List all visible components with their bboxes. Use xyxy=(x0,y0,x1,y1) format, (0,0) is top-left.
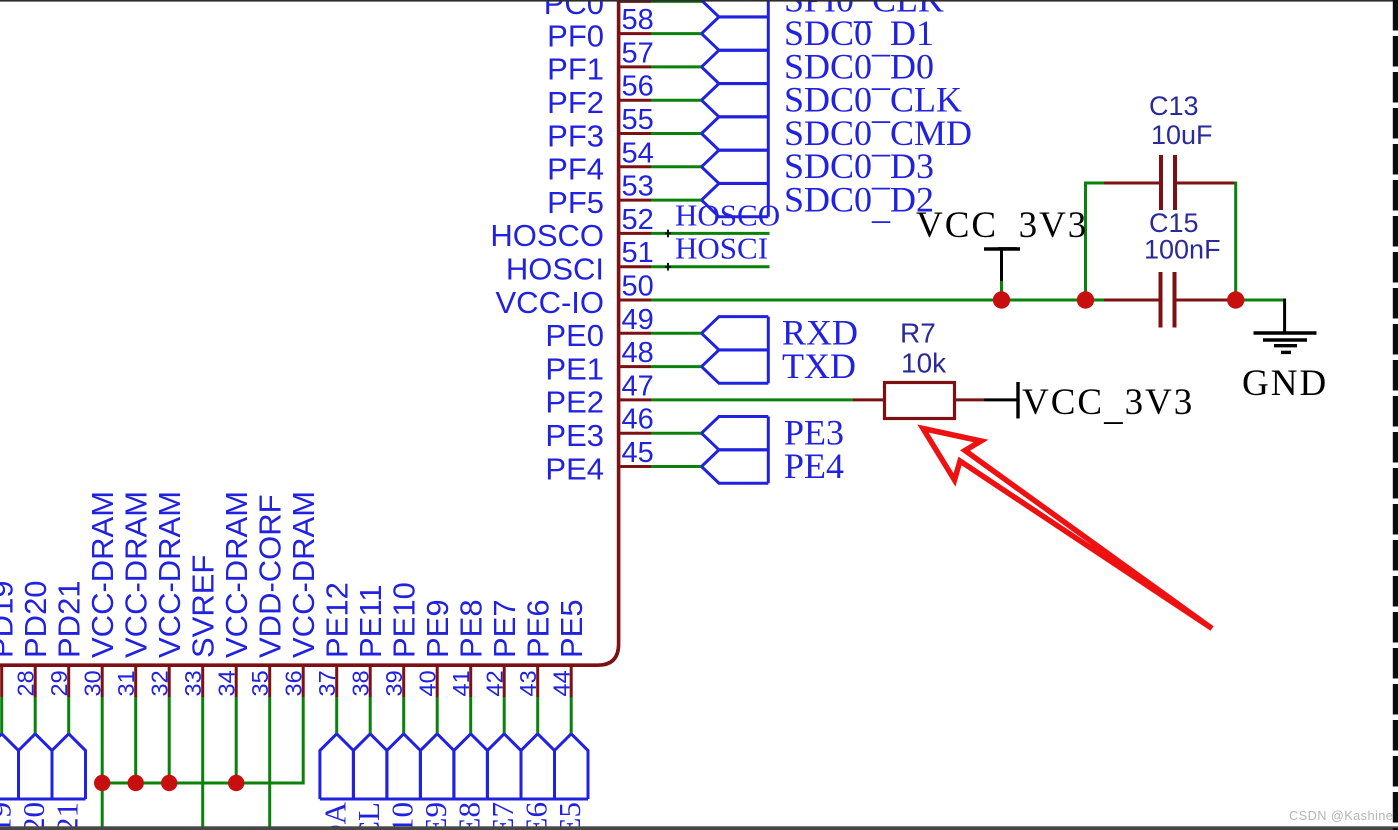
pin 41 (PE8) bottom stub, number and name xyxy=(448,599,489,697)
ground symbol GND stem xyxy=(1283,299,1286,333)
pin 54 (PF4) right-side stub, number and name xyxy=(547,137,654,186)
svg-text:PE10: PE10 xyxy=(385,802,420,830)
svg-text:56: 56 xyxy=(622,71,654,103)
svg-text:44: 44 xyxy=(549,670,575,696)
svg-text:48: 48 xyxy=(622,337,654,369)
svg-text:PE11: PE11 xyxy=(353,584,388,658)
pin 30 (VCC-DRAM) bottom stub, number and name xyxy=(80,491,121,697)
pin 29 (PD21) bottom stub, number and name xyxy=(46,580,87,697)
wire from pin PF1 xyxy=(651,65,703,68)
wire VCC-DRAM pin36 with corner xyxy=(102,697,303,783)
wire VCC-IO net (row 50) green main run xyxy=(651,299,1104,302)
svg-text:PF3: PF3 xyxy=(547,118,604,153)
wire PE pin41 xyxy=(469,697,472,734)
pin 47 (PE2) right-side stub, number and name xyxy=(545,370,653,419)
svg-text:HOSCO: HOSCO xyxy=(675,197,780,232)
wire PE pin44 xyxy=(570,697,573,734)
wire maroon lead to C15 left plate xyxy=(1104,299,1159,302)
svg-text:PE8: PE8 xyxy=(452,802,487,830)
wire PD20 xyxy=(34,697,37,734)
svg-text:PE9: PE9 xyxy=(418,802,453,830)
wire PE2 green to R7 xyxy=(651,398,853,401)
wire green stem to junction xyxy=(1000,281,1003,300)
wire PE pin39 xyxy=(402,697,405,734)
svg-text:PD19: PD19 xyxy=(0,802,18,830)
svg-text:SVREF: SVREF xyxy=(186,555,221,658)
wire VCC-DRAM pin30 down through junction to sheet edge xyxy=(101,697,104,830)
svg-text:29: 29 xyxy=(46,670,72,696)
harness chevron group PE3/PE4 (pins PE3,PE4) xyxy=(702,417,769,484)
pin 42 (PE7) bottom stub, number and name xyxy=(482,599,523,697)
svg-text:PE9: PE9 xyxy=(420,599,455,658)
power symbol VCC_3V3 (right of R7) lead and bar xyxy=(984,382,1018,419)
svg-text:34: 34 xyxy=(214,670,240,696)
wire from pin PF2 xyxy=(651,99,703,102)
svg-text:32: 32 xyxy=(147,670,173,696)
pin 45 (PE4) right-side stub, number and name xyxy=(545,437,653,486)
svg-text:VCC_3V3: VCC_3V3 xyxy=(1022,382,1194,428)
svg-text:58: 58 xyxy=(622,4,654,36)
pin 57 (PF1) right-side stub, number and name xyxy=(547,37,654,86)
pin 52 (HOSCO) right-side stub, number and name xyxy=(490,204,653,253)
svg-text:36: 36 xyxy=(281,670,307,696)
IC body outline U1 (right/bottom edges, rounded corner) xyxy=(0,0,619,665)
svg-text:VCC-DRAM: VCC-DRAM xyxy=(219,491,254,658)
svg-text:57: 57 xyxy=(622,37,654,69)
svg-text:40: 40 xyxy=(415,670,441,696)
svg-text:PE5: PE5 xyxy=(552,802,587,830)
pin PC0 (PC0) right-side stub, number and name xyxy=(544,0,651,21)
svg-text:GND: GND xyxy=(1242,363,1328,404)
svg-text:SCL: SCL xyxy=(351,802,386,830)
svg-text:50: 50 xyxy=(622,271,654,303)
wire maroon R7 left lead xyxy=(853,398,884,401)
wire PD19 xyxy=(0,697,3,734)
svg-text:HOSCI: HOSCI xyxy=(675,231,768,266)
bottom window border bar xyxy=(0,826,1398,830)
pin 51 (HOSCI) right-side stub, number and name xyxy=(506,237,654,286)
top window border line xyxy=(0,0,1398,2)
pin 39 (PE10) bottom stub, number and name xyxy=(381,582,422,697)
svg-text:PE12: PE12 xyxy=(320,582,355,658)
svg-text:PE5: PE5 xyxy=(554,599,589,658)
svg-text:55: 55 xyxy=(622,104,654,136)
ground symbol GND bars xyxy=(1254,333,1317,352)
wire maroon lead from C15 right plate xyxy=(1177,299,1232,302)
svg-text:52: 52 xyxy=(622,204,654,236)
svg-text:28: 28 xyxy=(13,670,39,696)
svg-text:TXD: TXD xyxy=(782,346,856,386)
wire PE pin37 xyxy=(335,697,338,734)
pin 31 (VCC-DRAM) bottom stub, number and name xyxy=(113,491,154,697)
svg-text:43: 43 xyxy=(515,670,541,696)
svg-text:HOSCO: HOSCO xyxy=(490,218,604,253)
svg-text:C13: C13 xyxy=(1149,91,1199,121)
pin 35 (VDD-CORF) bottom stub, number and name xyxy=(247,494,288,697)
wire green right riser of C13 loop xyxy=(1234,182,1237,301)
svg-text:PE10: PE10 xyxy=(387,582,422,658)
wire top branch to C13 (green then maroon) xyxy=(1084,182,1159,185)
junction dot VCC-DRAM bus at pin 30 xyxy=(94,775,110,791)
svg-text:100nF: 100nF xyxy=(1144,235,1221,265)
pin 37 (PE12) bottom stub, number and name xyxy=(314,582,355,697)
junction dot VCC-DRAM bus at pin 34 xyxy=(228,775,244,791)
svg-text:49: 49 xyxy=(622,304,654,336)
pin 49 (PE0) right-side stub, number and name xyxy=(545,304,653,353)
pin 55 (PF3) right-side stub, number and name xyxy=(547,104,654,153)
svg-text:PD21: PD21 xyxy=(52,580,87,658)
svg-text:C15: C15 xyxy=(1149,208,1199,238)
pin 43 (PE6) bottom stub, number and name xyxy=(515,599,556,697)
wire from pin PE0 xyxy=(651,332,703,335)
svg-text:47: 47 xyxy=(622,370,654,402)
wire from pin PE1 xyxy=(651,365,703,368)
svg-text:PE2: PE2 xyxy=(545,385,604,420)
wire green to GND corner xyxy=(1231,299,1286,302)
wire from pin PF4 xyxy=(651,165,703,168)
svg-text:10k: 10k xyxy=(901,348,947,379)
svg-text:VCC-IO: VCC-IO xyxy=(496,285,605,320)
svg-text:PF4: PF4 xyxy=(547,152,604,187)
svg-text:SDA: SDA xyxy=(318,801,353,830)
svg-text:31: 31 xyxy=(113,670,139,696)
svg-text:41: 41 xyxy=(448,670,474,696)
harness chevron group PD19-PD21 (bottom left) xyxy=(0,734,86,799)
svg-text:PF2: PF2 xyxy=(547,85,604,120)
power symbol VCC_3V3 (upper) bar and stem xyxy=(984,249,1020,281)
pin 38 (PE11) bottom stub, number and name xyxy=(348,584,389,697)
svg-text:45: 45 xyxy=(622,437,654,469)
svg-text:PD21: PD21 xyxy=(50,802,85,830)
svg-text:VCC-DRAM: VCC-DRAM xyxy=(119,491,154,658)
wire VCC-DRAM pin32 xyxy=(168,697,171,783)
svg-text:10uF: 10uF xyxy=(1151,120,1213,150)
svg-text:39: 39 xyxy=(381,670,407,696)
pin 32 (VCC-DRAM) bottom stub, number and name xyxy=(147,491,188,697)
wire PE pin38 xyxy=(369,697,372,734)
svg-text:VCC-DRAM: VCC-DRAM xyxy=(85,491,120,658)
wire PE pin42 xyxy=(503,697,506,734)
annotation red arrow pointing at R7 xyxy=(923,429,1212,629)
pin 53 (PF5) right-side stub, number and name xyxy=(547,171,654,220)
svg-text:PE0: PE0 xyxy=(545,318,604,353)
wire from pin HOSCI xyxy=(651,265,770,268)
harness chevron group RXD/TXD (pins PE0,PE1) xyxy=(702,317,769,384)
svg-text:PE6: PE6 xyxy=(521,599,556,658)
wire from pin HOSCO xyxy=(651,232,770,235)
svg-text:54: 54 xyxy=(622,137,654,169)
wire from pin PC0 xyxy=(651,0,703,3)
svg-text:53: 53 xyxy=(622,171,654,203)
svg-text:PE4: PE4 xyxy=(545,451,604,486)
svg-text:PD20: PD20 xyxy=(16,802,51,830)
svg-text:PF5: PF5 xyxy=(547,185,604,220)
svg-text:SDC0_D2: SDC0_D2 xyxy=(784,180,934,227)
svg-text:PE6: PE6 xyxy=(519,802,554,830)
junction dot row50 at VCC stem xyxy=(993,291,1010,308)
wire PD21 xyxy=(67,697,70,734)
svg-text:VCC_3V3: VCC_3V3 xyxy=(916,205,1088,253)
wire from pin PF5 xyxy=(651,199,703,202)
svg-text:37: 37 xyxy=(314,670,340,696)
pin 44 (PE5) bottom stub, number and name xyxy=(549,599,590,697)
pin 36 (VCC-DRAM) bottom stub, number and name xyxy=(281,491,322,697)
svg-text:PE4: PE4 xyxy=(784,446,844,486)
pin 46 (PE3) right-side stub, number and name xyxy=(545,404,653,453)
label anchor cross HOSCI xyxy=(665,263,671,271)
svg-text:PE8: PE8 xyxy=(454,599,489,658)
wire green left riser of C13 loop xyxy=(1084,183,1087,300)
wire VCC-DRAM pin31 xyxy=(134,697,137,783)
svg-text:VCC-DRAM: VCC-DRAM xyxy=(286,491,321,658)
wire VCC-DRAM pin34 xyxy=(235,697,238,783)
svg-text:42: 42 xyxy=(482,670,508,696)
wire from pin PF0 xyxy=(651,32,703,35)
junction dot row50 at loop right xyxy=(1227,291,1244,308)
pin 27 (PD19) bottom stub, number and name xyxy=(0,580,20,697)
svg-text:VCC-DRAM: VCC-DRAM xyxy=(152,491,187,658)
junction dot VCC-DRAM bus at pin 32 xyxy=(161,775,177,791)
wire from pin PE3 xyxy=(651,432,703,435)
svg-text:46: 46 xyxy=(622,404,654,436)
svg-text:38: 38 xyxy=(348,670,374,696)
pin 28 (PD20) bottom stub, number and name xyxy=(13,580,54,697)
harness chevron group SDC0/SPI0 (pins PC0,PF0-PF5) with bus line xyxy=(702,0,769,217)
svg-text:33: 33 xyxy=(180,670,206,696)
svg-text:PD19: PD19 xyxy=(0,580,20,658)
svg-text:PE7: PE7 xyxy=(487,599,522,658)
wire top branch from C13 to right corner (maroon) xyxy=(1177,182,1236,185)
wire from pin PF3 xyxy=(651,132,703,135)
pin 50 (VCC-IO) right-side stub, number and name xyxy=(496,271,654,320)
capacitor C13 plates xyxy=(1161,155,1175,210)
pin 33 (SVREF) bottom stub, number and name xyxy=(180,555,221,697)
capacitor C15 plates xyxy=(1161,272,1175,328)
svg-text:HOSCI: HOSCI xyxy=(506,252,604,287)
sheet frame dashed right border xyxy=(1393,0,1398,830)
svg-text:PD20: PD20 xyxy=(18,580,53,658)
wire maroon R7 right lead xyxy=(955,398,985,401)
wire SVREF pin33 down to sheet edge xyxy=(201,697,204,830)
svg-text:35: 35 xyxy=(247,670,273,696)
svg-text:CSDN @Kashine: CSDN @Kashine xyxy=(1289,808,1393,823)
svg-text:PE3: PE3 xyxy=(545,418,604,453)
harness chevron group PE5-PE12 (bottom right) xyxy=(320,734,588,799)
pin 34 (VCC-DRAM) bottom stub, number and name xyxy=(214,491,255,697)
pin 48 (PE1) right-side stub, number and name xyxy=(545,337,653,386)
junction dot row50 at loop left xyxy=(1077,291,1094,308)
svg-text:R7: R7 xyxy=(900,318,936,349)
pin 58 (PF0) right-side stub, number and name xyxy=(547,4,654,53)
wire PE pin43 xyxy=(536,697,539,734)
svg-text:PE1: PE1 xyxy=(545,351,604,386)
svg-text:PF1: PF1 xyxy=(547,52,604,87)
pin 56 (PF2) right-side stub, number and name xyxy=(547,71,654,120)
wire PE pin40 xyxy=(436,697,439,734)
svg-text:51: 51 xyxy=(622,237,654,269)
label anchor cross HOSCO xyxy=(665,230,671,238)
svg-text:VDD-CORF: VDD-CORF xyxy=(253,494,288,658)
wire VDD-CORF pin35 down to sheet edge xyxy=(268,697,271,830)
resistor R7 body xyxy=(885,383,955,419)
wire from pin PE4 xyxy=(651,465,703,468)
svg-text:PF0: PF0 xyxy=(547,18,604,53)
svg-text:30: 30 xyxy=(80,670,106,696)
junction dot VCC-DRAM bus at pin 31 xyxy=(128,775,144,791)
pin 40 (PE9) bottom stub, number and name xyxy=(415,599,456,697)
svg-text:PE7: PE7 xyxy=(485,802,520,830)
